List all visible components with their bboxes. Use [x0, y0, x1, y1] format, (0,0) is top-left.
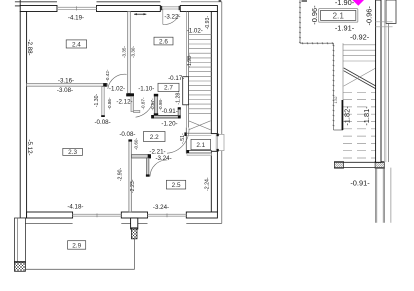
roof offset line top-middle	[97, 1, 161, 3]
stair winder X	[189, 121, 211, 130]
interior wall F stub	[147, 158, 149, 176]
exterior wall top segment 1	[20, 6, 57, 12]
svg-text:-1.20-: -1.20-	[161, 121, 177, 128]
svg-text:-0.17-: -0.17-	[168, 75, 184, 82]
stairwell left edge	[342, 43, 344, 130]
svg-text:-2.24-: -2.24-	[204, 177, 210, 191]
corner tick top-right	[219, 0, 222, 2]
svg-text:2.3: 2.3	[68, 149, 77, 156]
exterior wall right lower	[211, 151, 217, 212]
terrace left pillar	[15, 218, 26, 263]
wall line overshoot top-left	[19, 0, 21, 6]
svg-text:-1.02-: -1.02-	[187, 27, 203, 34]
svg-text:-0.93-: -0.93-	[205, 16, 211, 30]
detail right wall band	[376, 0, 381, 162]
svg-text:-3.22-: -3.22-	[164, 13, 180, 20]
interior wall B lower extension	[131, 96, 134, 111]
section wall hatch right	[375, 162, 384, 169]
svg-text:2.4: 2.4	[72, 41, 81, 48]
svg-text:-1.28-: -1.28-	[176, 91, 182, 105]
room label 2.1 (detail)	[319, 9, 358, 23]
svg-text:-0.60-: -0.60-	[134, 138, 139, 150]
room label 2.1	[191, 139, 211, 149]
svg-text:-0.91-: -0.91-	[162, 108, 178, 115]
stair break cut lines	[344, 68, 376, 89]
interior wall D (2.3/2.2, 2.3/2.5)	[129, 140, 132, 212]
detail boundary ticked line mid vertical	[333, 43, 335, 130]
interior wall E stub	[132, 155, 150, 158]
svg-text:2.9: 2.9	[72, 242, 81, 249]
landing 2.1 lower wall	[189, 150, 212, 153]
svg-text:-2.90-: -2.90-	[117, 167, 123, 181]
svg-text:-0.42-: -0.42-	[105, 69, 110, 81]
svg-text:-.51-: -.51-	[180, 133, 186, 144]
stair treads	[189, 35, 212, 114]
dimension arrow symbol	[134, 13, 146, 15]
svg-text:-0.57-: -0.57-	[150, 98, 155, 110]
room label 2.6	[154, 37, 173, 45]
exterior wall bottom segment 2	[121, 212, 147, 218]
svg-text:2.5: 2.5	[172, 182, 181, 189]
svg-text:2.2: 2.2	[150, 134, 159, 141]
svg-text:-3.16-: -3.16-	[58, 78, 74, 85]
detail boundary ticked line left	[299, 0, 301, 43]
svg-text:-0.87-: -0.87-	[140, 97, 145, 109]
landing 2.1 upper wall	[186, 132, 211, 134]
svg-text:-0.92-: -0.92-	[350, 32, 370, 41]
exterior wall right upper	[211, 12, 217, 134]
svg-text:-4.19-: -4.19-	[68, 14, 84, 21]
svg-text:-3.24-: -3.24-	[153, 204, 169, 211]
svg-text:-5.12-: -5.12-	[26, 139, 33, 155]
door arc into 2.5	[150, 160, 167, 176]
svg-text:-3.24-: -3.24-	[156, 155, 172, 162]
detail right wall outer band	[386, 0, 396, 23]
detail boundary ticked line bottom-left	[300, 42, 334, 44]
room label 2.2	[144, 132, 166, 142]
room label 2.3	[63, 148, 83, 155]
window bottom wall 2	[148, 213, 187, 215]
svg-text:2.1: 2.1	[196, 142, 205, 149]
section wall hatch left	[334, 162, 343, 169]
room label 2.4	[66, 40, 86, 48]
door swing arc top	[163, 14, 179, 24]
interior wall B (2.4/2.6)	[128, 12, 131, 94]
roof offset line right	[221, 2, 223, 224]
interior wall stub C (2.7)	[154, 96, 157, 114]
stairwell left wall double line	[185, 12, 187, 128]
detail boundary bottom	[334, 129, 344, 131]
interior wall A (2.4/2.3)	[27, 84, 108, 87]
svg-text:2.6: 2.6	[159, 38, 168, 45]
svg-text:-0.96-: -0.96-	[365, 6, 374, 26]
balcony door top wall	[161, 6, 180, 8]
exterior wall left	[20, 12, 26, 219]
svg-text:-1.98-: -1.98-	[187, 54, 193, 68]
exterior wall top segment 2	[97, 6, 161, 12]
svg-text:2.7: 2.7	[164, 85, 173, 92]
room label 2.7	[158, 83, 179, 91]
magenta cursor marker	[352, 0, 364, 6]
door arc wall B bottom (into hall)	[136, 101, 154, 117]
svg-text:-1.82-: -1.82-	[343, 106, 352, 126]
svg-text:-2.23-: -2.23-	[130, 179, 136, 193]
room label 2.5	[166, 180, 185, 189]
svg-text:-1.81-: -1.81-	[362, 106, 371, 126]
pier hatch	[131, 228, 137, 239]
door arc wall A (into 2.4)	[108, 74, 127, 89]
svg-text:-1.90-: -1.90-	[335, 0, 355, 7]
landing left wall line	[185, 128, 187, 154]
svg-text:-0.91-: -0.91-	[350, 178, 370, 187]
room label 2.9	[68, 241, 86, 250]
roof offset line top-left	[15, 1, 57, 3]
window bottom wall 1	[73, 213, 122, 215]
section wall	[334, 161, 384, 163]
svg-text:1.82: 1.82	[334, 97, 338, 104]
interior wall 2.7 right stub	[178, 109, 180, 115]
svg-text:-0.86-: -0.86-	[107, 97, 112, 109]
roof offset line top-right	[181, 1, 222, 3]
detail stair treads solid	[343, 45, 376, 61]
svg-text:-1.30-: -1.30-	[94, 93, 100, 107]
svg-text:-1.10-: -1.10-	[138, 86, 154, 93]
detail stair treads dashed (hidden)	[343, 92, 376, 158]
svg-text:-0.08-: -0.08-	[119, 131, 135, 138]
interior wall 2.7 bottom	[152, 115, 181, 118]
stairwell left wall lower (section)	[341, 100, 343, 130]
door in right wall (passage)	[217, 134, 224, 150]
window top wall	[57, 6, 97, 8]
svg-text:-3.08-: -3.08-	[57, 87, 73, 94]
svg-text:-0.08-: -0.08-	[95, 119, 111, 126]
door arc landing 2.1 (into 2.2)	[167, 128, 189, 153]
clipped text mark	[302, 0, 308, 2]
svg-text:-3.30-: -3.30-	[131, 46, 136, 58]
exterior wall bottom segment 1	[27, 212, 73, 218]
terrace pillar hatch	[15, 262, 26, 272]
roof offset line bottom	[25, 222, 73, 224]
terrace outline right	[134, 239, 136, 269]
window sill detail	[376, 21, 393, 23]
door leaf at stairwell	[183, 77, 189, 105]
pier below bottom wall	[131, 218, 138, 229]
exterior wall top segment 3	[180, 6, 217, 12]
svg-text:-2.12-: -2.12-	[116, 99, 132, 106]
svg-text:-1.02-: -1.02-	[109, 85, 125, 92]
terrace outline bottom	[25, 268, 134, 270]
exterior wall bottom segment 3	[186, 212, 217, 218]
svg-text:-0.98-: -0.98-	[158, 98, 163, 110]
svg-text:-0.96-: -0.96-	[310, 5, 319, 25]
svg-text:-2.88-: -2.88-	[26, 39, 33, 55]
detail lines below section wall	[374, 168, 376, 223]
detail right wall double lines	[383, 0, 385, 162]
interior wall stub G	[102, 87, 104, 117]
stair diagonal	[344, 68, 376, 86]
svg-text:-4.18-: -4.18-	[67, 204, 83, 211]
svg-text:-1.91-: -1.91-	[335, 24, 355, 33]
door jamb line	[162, 9, 164, 25]
svg-text:2.1: 2.1	[333, 12, 345, 21]
svg-text:-3.35-: -3.35-	[122, 46, 127, 58]
